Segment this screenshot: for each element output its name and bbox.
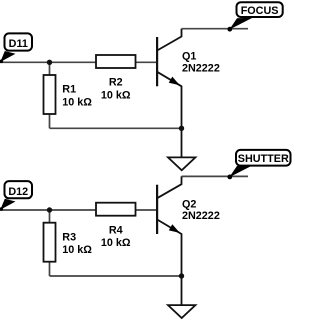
svg-text:R4: R4 xyxy=(109,224,123,236)
svg-text:10 kΩ: 10 kΩ xyxy=(101,237,131,249)
svg-text:R2: R2 xyxy=(109,77,123,89)
svg-text:D12: D12 xyxy=(8,186,28,198)
svg-text:R3: R3 xyxy=(62,231,76,243)
svg-text:10 kΩ: 10 kΩ xyxy=(62,244,92,256)
svg-text:10 kΩ: 10 kΩ xyxy=(101,90,131,102)
svg-text:Q2: Q2 xyxy=(182,198,196,210)
svg-text:D11: D11 xyxy=(9,38,28,50)
svg-text:FOCUS: FOCUS xyxy=(241,5,279,17)
svg-text:2N2222: 2N2222 xyxy=(182,210,220,222)
svg-text:R1: R1 xyxy=(62,84,76,96)
svg-text:Q1: Q1 xyxy=(182,51,196,63)
svg-text:10 kΩ: 10 kΩ xyxy=(62,96,92,108)
svg-text:SHUTTER: SHUTTER xyxy=(238,153,289,165)
svg-text:2N2222: 2N2222 xyxy=(182,63,220,75)
